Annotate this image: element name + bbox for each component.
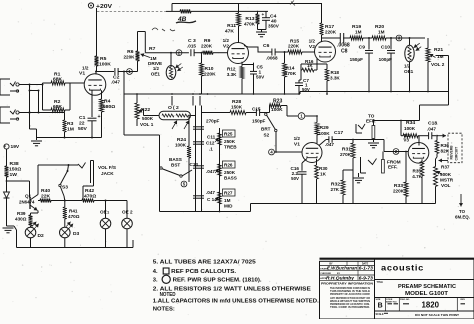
svg-text:Q1: Q1 [25, 194, 32, 199]
svg-text:220K: 220K [325, 30, 337, 35]
svg-text:1M: 1M [67, 127, 74, 133]
svg-text:BY: BY [329, 263, 333, 266]
svg-text:PROPRIETARY INFORMATION: PROPRIETARY INFORMATION [321, 282, 373, 286]
svg-text:50V: 50V [256, 75, 265, 80]
svg-text:150K: 150K [231, 105, 243, 110]
svg-text:TREB: TREB [224, 145, 237, 150]
svg-text:REF. PWR SUP SCHEM. (1810).: REF. PWR SUP SCHEM. (1810). [173, 278, 262, 284]
svg-text:NOTED: NOTED [160, 292, 176, 298]
svg-text:THIS DRAWING IS THE SOLE: THIS DRAWING IS THE SOLE [330, 290, 371, 293]
svg-text:+: + [98, 114, 101, 120]
svg-text:MSTR: MSTR [440, 178, 454, 183]
svg-text:BY: BY [337, 273, 341, 275]
svg-text:1M: 1M [437, 54, 444, 59]
svg-text:R35: R35 [413, 169, 422, 174]
svg-text:R21: R21 [434, 47, 443, 53]
svg-text:OE1: OE1 [404, 69, 414, 74]
svg-text:C15: C15 [252, 107, 261, 112]
svg-text:1820: 1820 [422, 301, 440, 310]
svg-text:V1: V1 [294, 141, 300, 147]
svg-text:C11: C11 [207, 135, 216, 140]
svg-text:C6: C6 [263, 43, 270, 49]
svg-text:.047: .047 [206, 190, 215, 195]
svg-text:REF PCB CALLOUTS.: REF PCB CALLOUTS. [171, 269, 236, 275]
svg-text:3.: 3. [153, 278, 158, 284]
svg-text:100K: 100K [319, 131, 331, 136]
svg-text:( 2: ( 2 [173, 105, 179, 111]
svg-text:R27: R27 [224, 191, 233, 196]
svg-text:1/2: 1/2 [309, 39, 316, 44]
svg-text:THE INFORMATION CONTAINED IN: THE INFORMATION CONTAINED IN [330, 287, 370, 290]
svg-text:R7: R7 [149, 46, 156, 52]
svg-text:270pF: 270pF [206, 119, 220, 124]
svg-text:VOL F/S: VOL F/S [98, 165, 116, 170]
svg-text:22K: 22K [41, 194, 51, 200]
svg-text:JACK: JACK [101, 171, 114, 176]
svg-text:50V: 50V [78, 126, 88, 132]
svg-text:47K: 47K [225, 29, 235, 35]
svg-text:R14: R14 [286, 66, 295, 72]
svg-text:NOTES:: NOTES: [153, 306, 175, 312]
svg-text:220K: 220K [288, 44, 300, 49]
svg-text:6M.EQ.: 6M.EQ. [455, 215, 470, 220]
svg-text:27K: 27K [331, 187, 340, 192]
svg-text:.015: .015 [187, 44, 196, 49]
svg-text:DO NOT SCALE THIS PRINT: DO NOT SCALE THIS PRINT [415, 313, 459, 317]
svg-text:V3: V3 [403, 138, 409, 143]
svg-text:1/2: 1/2 [223, 38, 230, 43]
svg-text:50V: 50V [291, 176, 299, 181]
svg-text:220K: 220K [123, 55, 135, 60]
svg-text:1M: 1M [378, 30, 385, 35]
svg-text:470Ω: 470Ω [68, 214, 80, 219]
svg-text:R39: R39 [17, 211, 26, 216]
svg-text:C17: C17 [334, 130, 343, 136]
svg-text:REV: REV [461, 299, 466, 301]
svg-text:.1: .1 [209, 147, 213, 152]
svg-text:19V: 19V [11, 144, 20, 150]
svg-text:O: O [168, 105, 172, 111]
svg-text:S2: S2 [264, 133, 270, 138]
svg-text:.047: .047 [325, 142, 334, 147]
svg-text:470K: 470K [244, 22, 256, 27]
svg-text:C9: C9 [359, 45, 366, 51]
svg-text:470Ω: 470Ω [84, 194, 96, 200]
svg-text:680Ω: 680Ω [103, 104, 115, 110]
svg-text:100K: 100K [99, 62, 111, 68]
svg-text:VOL 1: VOL 1 [140, 122, 154, 127]
svg-text:VOL: VOL [441, 183, 451, 188]
svg-text:500K: 500K [440, 172, 452, 177]
svg-text:V2: V2 [223, 44, 229, 50]
svg-text:acoustic: acoustic [381, 263, 424, 272]
svg-text:100K: 100K [404, 126, 416, 131]
svg-text:68K: 68K [53, 77, 63, 83]
svg-text:5. ALL TUBES ARE 12AX7A/ 7025: 5. ALL TUBES ARE 12AX7A/ 7025 [153, 260, 257, 266]
svg-text:OE: OE [100, 210, 107, 215]
svg-text:250K: 250K [224, 170, 236, 175]
svg-text:SCALE: SCALE [376, 313, 385, 316]
svg-text:4.7K: 4.7K [412, 174, 422, 179]
svg-text:REVERB: REVERB [449, 145, 453, 160]
svg-text:+: + [262, 12, 265, 17]
svg-text:4.: 4. [153, 269, 158, 275]
svg-text:.047: .047 [206, 169, 215, 174]
svg-text:MODEL G100T: MODEL G100T [405, 291, 448, 297]
svg-text:6-9-73: 6-9-73 [359, 275, 374, 280]
svg-text:MID: MID [224, 204, 233, 209]
svg-text:220K: 220K [204, 72, 216, 78]
svg-text:3.3K: 3.3K [330, 76, 340, 81]
svg-text:BRT: BRT [261, 127, 271, 132]
svg-text:430Ω: 430Ω [15, 217, 27, 222]
svg-text:SIZE: SIZE [376, 299, 381, 301]
svg-text:C10: C10 [381, 45, 390, 51]
svg-text:220K: 220K [393, 189, 405, 194]
svg-text:TROL CORP. IS PROHIBITED.: TROL CORP. IS PROHIBITED. [330, 307, 370, 309]
svg-text:R18: R18 [331, 70, 340, 75]
svg-text:6-1-73: 6-1-73 [359, 266, 374, 271]
svg-text:270K: 270K [340, 152, 352, 157]
svg-text:150pF: 150pF [252, 119, 266, 124]
svg-text:R41: R41 [69, 209, 78, 214]
svg-text:.047: .047 [111, 80, 120, 85]
svg-text:PROPERTY OF ACOUSTIC CORP.: PROPERTY OF ACOUSTIC CORP. [330, 293, 370, 296]
svg-text:ANY REPRODUCTION IN PART OR: ANY REPRODUCTION IN PART OR [330, 297, 370, 300]
svg-text:R26: R26 [224, 163, 233, 168]
svg-text:250K: 250K [224, 139, 236, 144]
svg-text:OE 2: OE 2 [122, 210, 133, 215]
svg-text:V1: V1 [79, 71, 85, 77]
svg-text:1M: 1M [224, 198, 231, 203]
svg-text:C8: C8 [341, 49, 348, 55]
svg-text:.047: .047 [427, 127, 436, 132]
svg-text:OE1: OE1 [151, 72, 161, 77]
svg-text:V2: V2 [309, 44, 315, 50]
svg-text:C12: C12 [206, 141, 215, 146]
svg-text:500K: 500K [142, 116, 154, 121]
svg-text:CHECKED: CHECKED [320, 273, 331, 275]
svg-text:+20V: +20V [96, 4, 112, 10]
svg-text:2N6474: 2N6474 [19, 200, 35, 205]
svg-text:1W: 1W [10, 172, 18, 178]
svg-text:TO: TO [459, 209, 466, 214]
svg-text:100K: 100K [175, 143, 187, 148]
svg-text:S3: S3 [62, 185, 68, 191]
svg-text:C 14: C 14 [207, 197, 217, 202]
svg-text:D2: D2 [38, 233, 45, 239]
svg-text:150pF: 150pF [350, 57, 364, 62]
svg-text:EFF.: EFF. [388, 165, 398, 170]
svg-text:350V: 350V [268, 24, 280, 29]
svg-text:R23: R23 [273, 99, 283, 105]
svg-text:BST: BST [171, 163, 180, 168]
svg-text:2. ALL RESISTORS 1/2 WATT UNLE: 2. ALL RESISTORS 1/2 WATT UNLESS OTHERWI… [153, 287, 311, 293]
svg-text:EFF.: EFF. [366, 119, 376, 124]
svg-text:R22: R22 [141, 107, 150, 113]
svg-text:68K: 68K [53, 104, 63, 110]
svg-text:TITLE: TITLE [377, 282, 384, 284]
svg-text:1/2: 1/2 [153, 66, 160, 71]
svg-text:R12: R12 [227, 67, 236, 72]
svg-text:E.W.Buchanan: E.W.Buchanan [327, 266, 357, 272]
svg-text:R10: R10 [205, 66, 214, 72]
svg-text:100pF: 100pF [379, 57, 393, 62]
svg-text:1.ALL CAPACITORS IN mfd UNLESS: 1.ALL CAPACITORS IN mfd UNLESS OTHERWISE… [153, 299, 319, 305]
svg-text:R30: R30 [319, 166, 328, 171]
svg-text:470K: 470K [285, 71, 297, 77]
svg-text:C13: C13 [190, 162, 199, 167]
svg-text:PERMISSION OF ACOUSTIC CON-: PERMISSION OF ACOUSTIC CON- [330, 303, 370, 306]
svg-text:1K: 1K [307, 63, 313, 68]
svg-text:BASS: BASS [224, 176, 237, 181]
svg-text:VOL 2: VOL 2 [431, 62, 445, 67]
svg-text:3.3K: 3.3K [227, 72, 237, 77]
svg-text:PREAMP SCHEMATIC: PREAMP SCHEMATIC [398, 284, 457, 290]
svg-text:220K: 220K [201, 44, 213, 49]
svg-text:B: B [378, 303, 383, 310]
svg-text:.0068: .0068 [266, 56, 278, 61]
svg-text:R25: R25 [224, 132, 233, 137]
svg-text:D3: D3 [73, 231, 80, 237]
svg-text:100K: 100K [271, 107, 283, 113]
svg-text:WHOLE WITHOUT THE WRITTEN: WHOLE WITHOUT THE WRITTEN [330, 301, 370, 303]
svg-text:BASS: BASS [169, 157, 182, 162]
svg-text:1M: 1M [355, 30, 362, 35]
svg-text:1/2: 1/2 [294, 136, 301, 141]
svg-text:CIRCUIT: CIRCUIT [454, 146, 458, 161]
svg-text:R37: R37 [441, 164, 450, 169]
svg-text:DWG NO.: DWG NO. [400, 299, 410, 301]
svg-text:1K: 1K [320, 172, 327, 177]
